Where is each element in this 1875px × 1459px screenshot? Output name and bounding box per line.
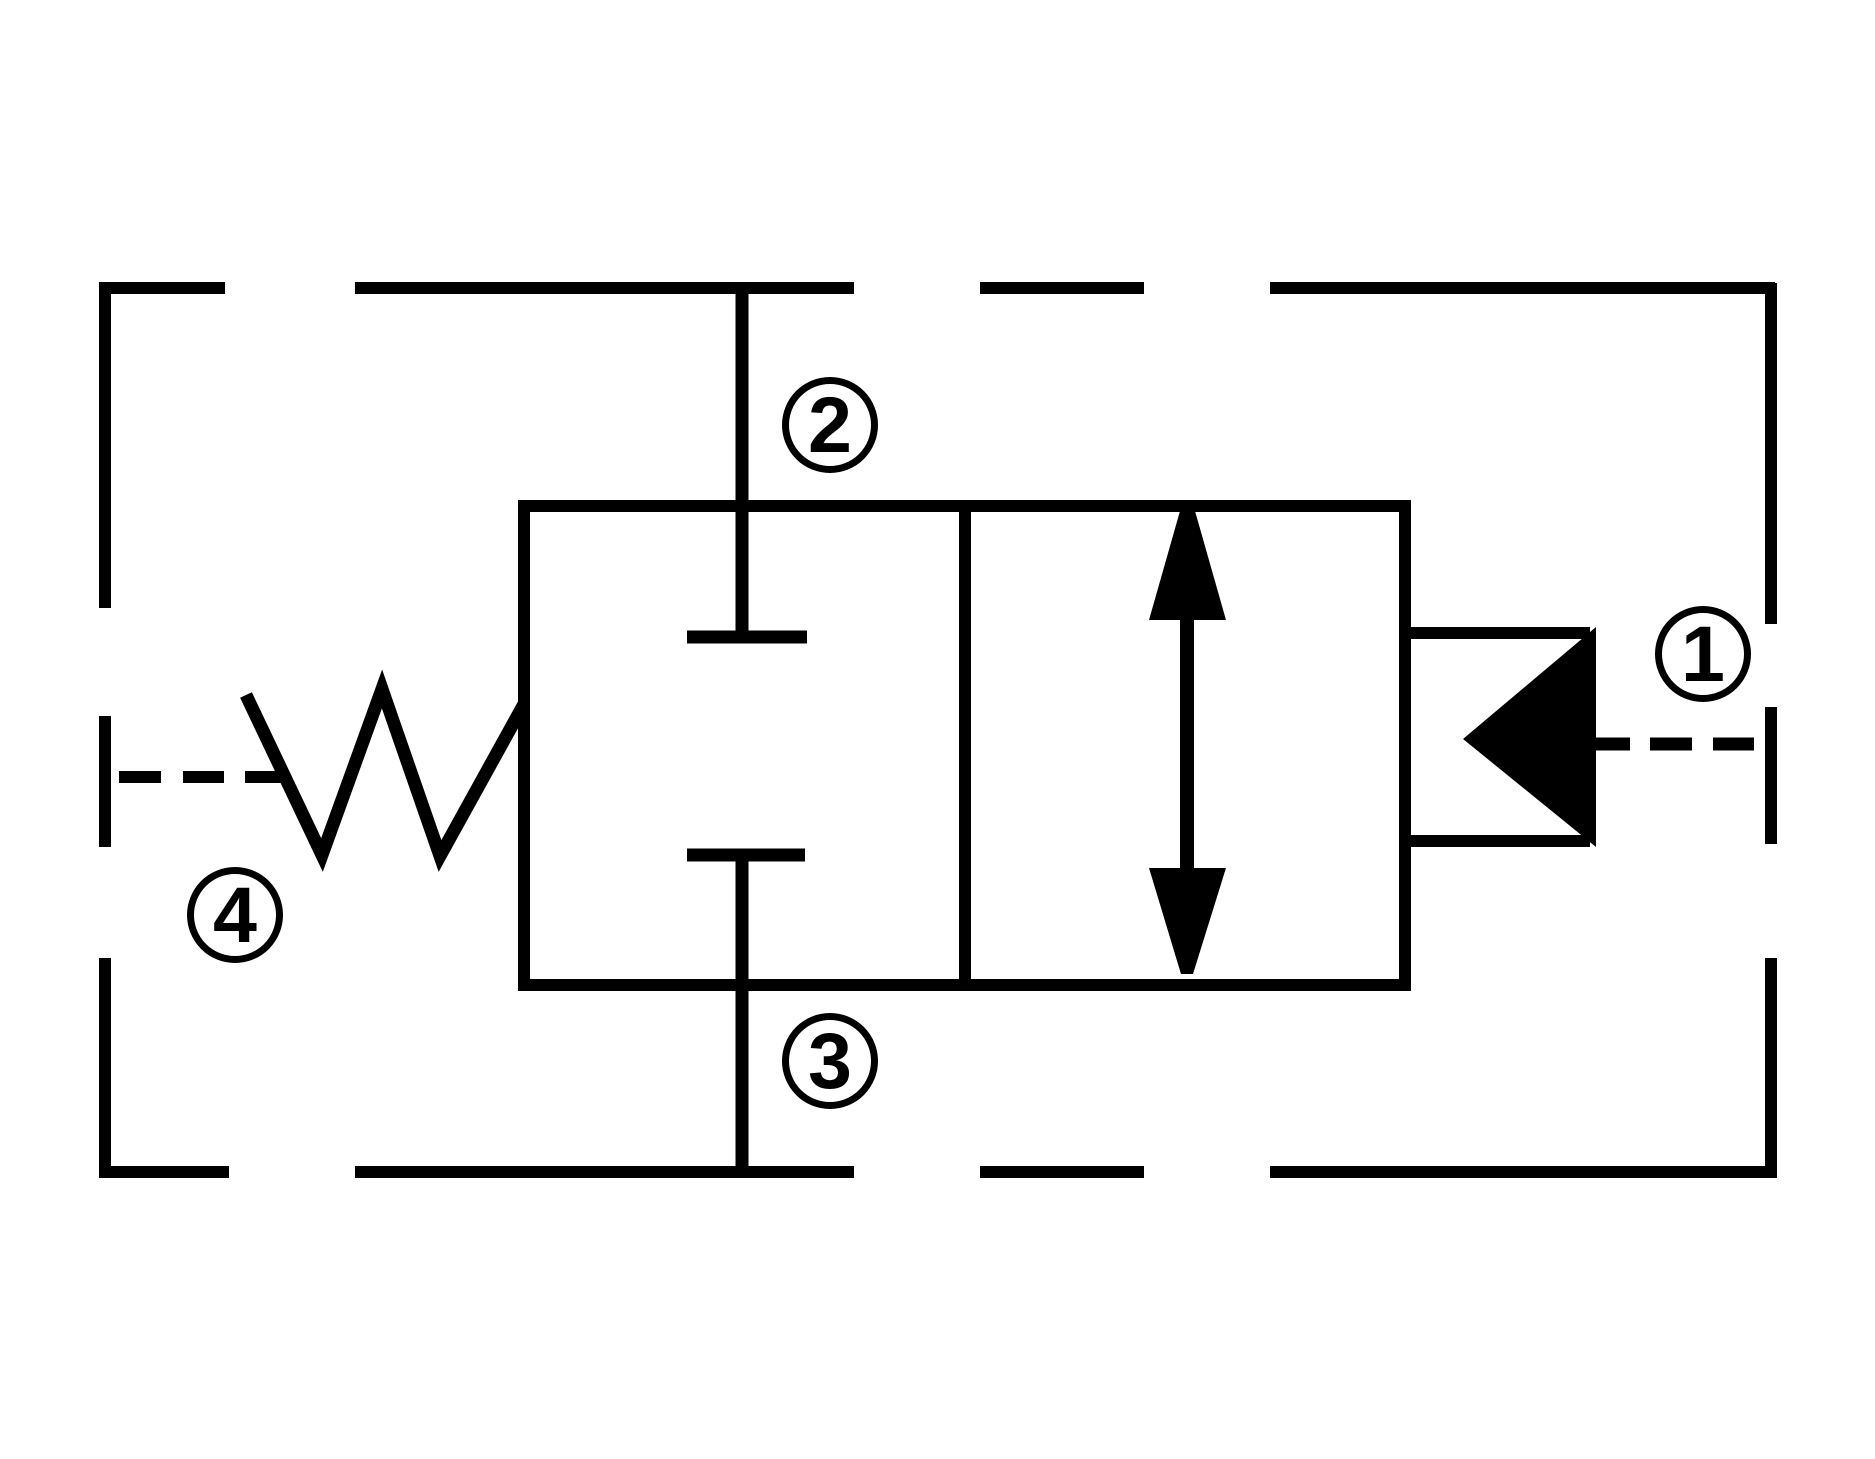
flow double-arrow shaft [1180, 560, 1194, 920]
port 3 blocked-port T symbol [687, 849, 805, 862]
svg-text:3: 3 [808, 1016, 852, 1105]
spring [246, 689, 524, 856]
enclosure boundary right (dashed wire) [1765, 283, 1777, 1178]
svg-text:1: 1 [1681, 609, 1725, 698]
svg-text:2: 2 [808, 380, 852, 469]
node label circle 2 [786, 381, 875, 470]
flow arrow head down [1149, 868, 1226, 974]
node label text 3 [808, 1016, 852, 1105]
valve body divider [959, 506, 971, 985]
enclosure boundary bottom (dashed wire) [99, 1166, 1775, 1178]
pilot box [1405, 633, 1590, 841]
wire port 2 stem [736, 284, 749, 637]
node label circle 4 [191, 871, 280, 960]
node label text 2 [808, 380, 852, 469]
node label circle 1 [1659, 610, 1748, 699]
pilot line port 4 (dashed wire) [119, 771, 288, 783]
enclosure boundary top (dashed wire) [99, 282, 1775, 294]
valve body envelope [524, 506, 1405, 985]
node label text 4 [213, 870, 257, 959]
pilot triangle [1463, 627, 1596, 847]
port 2 blocked-port T symbol [687, 631, 807, 644]
enclosure boundary left (dashed wire) [99, 282, 111, 1178]
svg-text:4: 4 [213, 870, 257, 959]
node label circle 3 [786, 1017, 875, 1106]
wire port 3 stem [736, 855, 749, 1176]
flow arrow head up [1149, 511, 1226, 620]
pilot line port 1 (dashed wire) [1596, 738, 1754, 751]
node label text 1 [1681, 609, 1725, 698]
